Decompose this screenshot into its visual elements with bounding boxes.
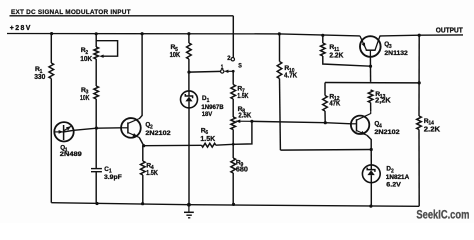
svg-text:10K: 10K bbox=[80, 54, 93, 63]
wire Q1 to node A bbox=[64, 128, 97, 132]
svg-text:OUTPUT: OUTPUT bbox=[436, 26, 463, 35]
transistor Q3 bbox=[360, 36, 381, 57]
node junction output bbox=[418, 34, 421, 37]
node junction D2-ground rail bbox=[369, 205, 372, 208]
wire Q4 emitter to D2 node bbox=[367, 135, 371, 149]
svg-text:SeekIC.com: SeekIC.com bbox=[416, 208, 469, 221]
wire ext-input top line bbox=[10, 15, 234, 17]
node junction main ground bbox=[187, 203, 191, 207]
ground bbox=[184, 205, 194, 218]
resistor R12 bbox=[323, 96, 328, 112]
zener diode D1 bbox=[181, 91, 198, 108]
svg-text:+28V: +28V bbox=[10, 25, 31, 32]
svg-text:S: S bbox=[238, 63, 242, 70]
svg-text:2,2K: 2,2K bbox=[375, 95, 391, 104]
wire to switch contact 1 bbox=[189, 70, 221, 73]
wire Q2 emitter to R4 bbox=[139, 137, 144, 145]
wire D1 bottom lead bbox=[188, 108, 190, 205]
switch contact 1 bbox=[221, 70, 224, 73]
wire R4 top lead bbox=[142, 146, 144, 161]
wire output column upper bbox=[418, 35, 420, 116]
resistor R2 (rheostat) bbox=[94, 47, 99, 59]
wire wiper node down to R6 bbox=[233, 121, 252, 144]
wire R12 top lead bbox=[324, 83, 326, 96]
node junction rail-R1 bbox=[50, 32, 53, 35]
svg-text:EXT DC SIGNAL MODULATOR INPUT: EXT DC SIGNAL MODULATOR INPUT bbox=[11, 9, 131, 16]
wire R14 bottom lead bbox=[418, 130, 420, 207]
wire R2 top lead bbox=[95, 34, 97, 47]
svg-text:4.7K: 4.7K bbox=[284, 71, 298, 80]
resistor R11 bbox=[321, 43, 326, 56]
wire wiper node to Q4 base bbox=[252, 121, 351, 124]
wire +28V rail bbox=[7, 34, 360, 36]
wire R9 bottom lead bbox=[232, 173, 234, 204]
node junction wiper bbox=[250, 120, 253, 123]
transistor Q4 bbox=[351, 111, 371, 135]
svg-text:1.5K: 1.5K bbox=[237, 91, 249, 100]
node junction R5-D1-switch bbox=[187, 71, 190, 74]
svg-text:2.2K: 2.2K bbox=[329, 50, 344, 59]
wire R2 wiper loop bbox=[96, 41, 117, 58]
node junction C1-ground rail bbox=[95, 202, 98, 205]
wire Q2 collector bbox=[139, 34, 142, 119]
svg-text:1.5K: 1.5K bbox=[146, 168, 158, 177]
svg-text:1N821A: 1N821A bbox=[386, 174, 410, 181]
wire D2 top lead bbox=[370, 150, 372, 166]
wire R10 top lead bbox=[279, 34, 281, 62]
wire R1 top lead bbox=[50, 34, 52, 63]
node junction R4-ground rail bbox=[141, 202, 144, 205]
wire R4 bottom lead bbox=[142, 175, 144, 204]
svg-text:2.5K: 2.5K bbox=[238, 110, 251, 119]
node junction rail-R5 bbox=[187, 32, 190, 35]
resistor R3 bbox=[94, 86, 99, 99]
wire output line bbox=[380, 35, 464, 36]
svg-text:10K: 10K bbox=[170, 50, 181, 59]
svg-text:1N967B: 1N967B bbox=[201, 104, 223, 111]
wire R3 to C1 bbox=[95, 99, 97, 168]
switch S arm bbox=[224, 70, 235, 73]
wire R11 top lead bbox=[322, 35, 324, 43]
node junction R6-R8-R9 bbox=[232, 143, 235, 146]
transistor Q1 bbox=[54, 122, 73, 141]
svg-text:1.5K: 1.5K bbox=[200, 134, 216, 143]
wire R8-R9 bbox=[232, 130, 234, 159]
svg-text:6.2V: 6.2V bbox=[386, 182, 401, 189]
wire node A to Q2 base bbox=[96, 127, 121, 129]
wire switch pole down bbox=[232, 71, 234, 84]
node junction R13 wire-output column bbox=[418, 81, 421, 84]
node junction rail-Q2 bbox=[141, 32, 144, 35]
wire left column below R1 bbox=[50, 79, 52, 203]
svg-text:10K: 10K bbox=[80, 93, 90, 102]
wire R2-R3 bbox=[95, 59, 97, 86]
resistor R8 (pot) bbox=[231, 117, 236, 130]
wire R11 bottom to Q3 base bbox=[323, 56, 371, 66]
node junction Q1-Q2 wire bbox=[95, 127, 98, 130]
svg-text:330: 330 bbox=[34, 72, 45, 81]
zener diode D2 bbox=[362, 165, 380, 183]
wire C1 bottom lead bbox=[95, 172, 97, 204]
wire R6 right lead bbox=[216, 143, 233, 146]
resistor R1 bbox=[49, 63, 54, 79]
svg-text:2.2K: 2.2K bbox=[424, 124, 441, 133]
wire R7-R8 bbox=[232, 99, 234, 117]
resistor R9 bbox=[231, 158, 236, 173]
transistor Q2 bbox=[121, 118, 141, 138]
resistor R4 bbox=[141, 161, 146, 175]
wire Q3 base down bbox=[369, 57, 371, 82]
wire R8 wiper bbox=[236, 119, 252, 123]
node junction Q4e-D2-R10 bbox=[370, 148, 373, 151]
wire R5 top lead bbox=[188, 34, 190, 43]
svg-text:2N1132: 2N1132 bbox=[384, 50, 408, 57]
node junction rail-R2 bbox=[95, 32, 98, 35]
wire R10 to D2 node bbox=[280, 149, 371, 152]
svg-text:2N2102: 2N2102 bbox=[145, 130, 170, 137]
switch contact 2 bbox=[231, 58, 234, 61]
capacitor C1 bbox=[91, 169, 102, 172]
wire R13 bottom lead bbox=[370, 103, 372, 112]
node junction R12-Q4 base bbox=[324, 121, 327, 124]
node junction rail-R10 bbox=[278, 32, 281, 35]
wire D2 bottom lead bbox=[370, 183, 372, 206]
svg-text:2N2102: 2N2102 bbox=[374, 129, 399, 136]
resistor R13 bbox=[368, 90, 373, 103]
wire Q2e to R6 bbox=[144, 144, 202, 146]
wire ext-input drop to switch contact 2 bbox=[232, 16, 234, 58]
node junction R9-ground rail bbox=[232, 203, 235, 206]
wire R10 bottom lead bbox=[279, 79, 282, 151]
node junction rail-R11 bbox=[321, 34, 324, 37]
resistor R5 bbox=[187, 43, 192, 59]
resistor R6 bbox=[202, 143, 216, 147]
svg-text:2N489: 2N489 bbox=[60, 151, 82, 158]
svg-text:18V: 18V bbox=[202, 111, 213, 118]
wire ground rail bbox=[51, 203, 419, 207]
svg-text:3.9pF: 3.9pF bbox=[104, 174, 122, 181]
svg-text:47K: 47K bbox=[329, 98, 340, 107]
resistor R14 bbox=[417, 116, 422, 130]
wire R5 bottom lead bbox=[188, 59, 190, 91]
resistor R7 bbox=[231, 85, 236, 100]
node junction Q2e bbox=[142, 144, 145, 147]
resistor R10 bbox=[277, 62, 282, 79]
node junction Q3 base bbox=[369, 65, 372, 68]
wire R12 bottom lead bbox=[324, 111, 326, 123]
wire base bus bbox=[325, 82, 419, 84]
svg-text:680: 680 bbox=[236, 165, 248, 174]
